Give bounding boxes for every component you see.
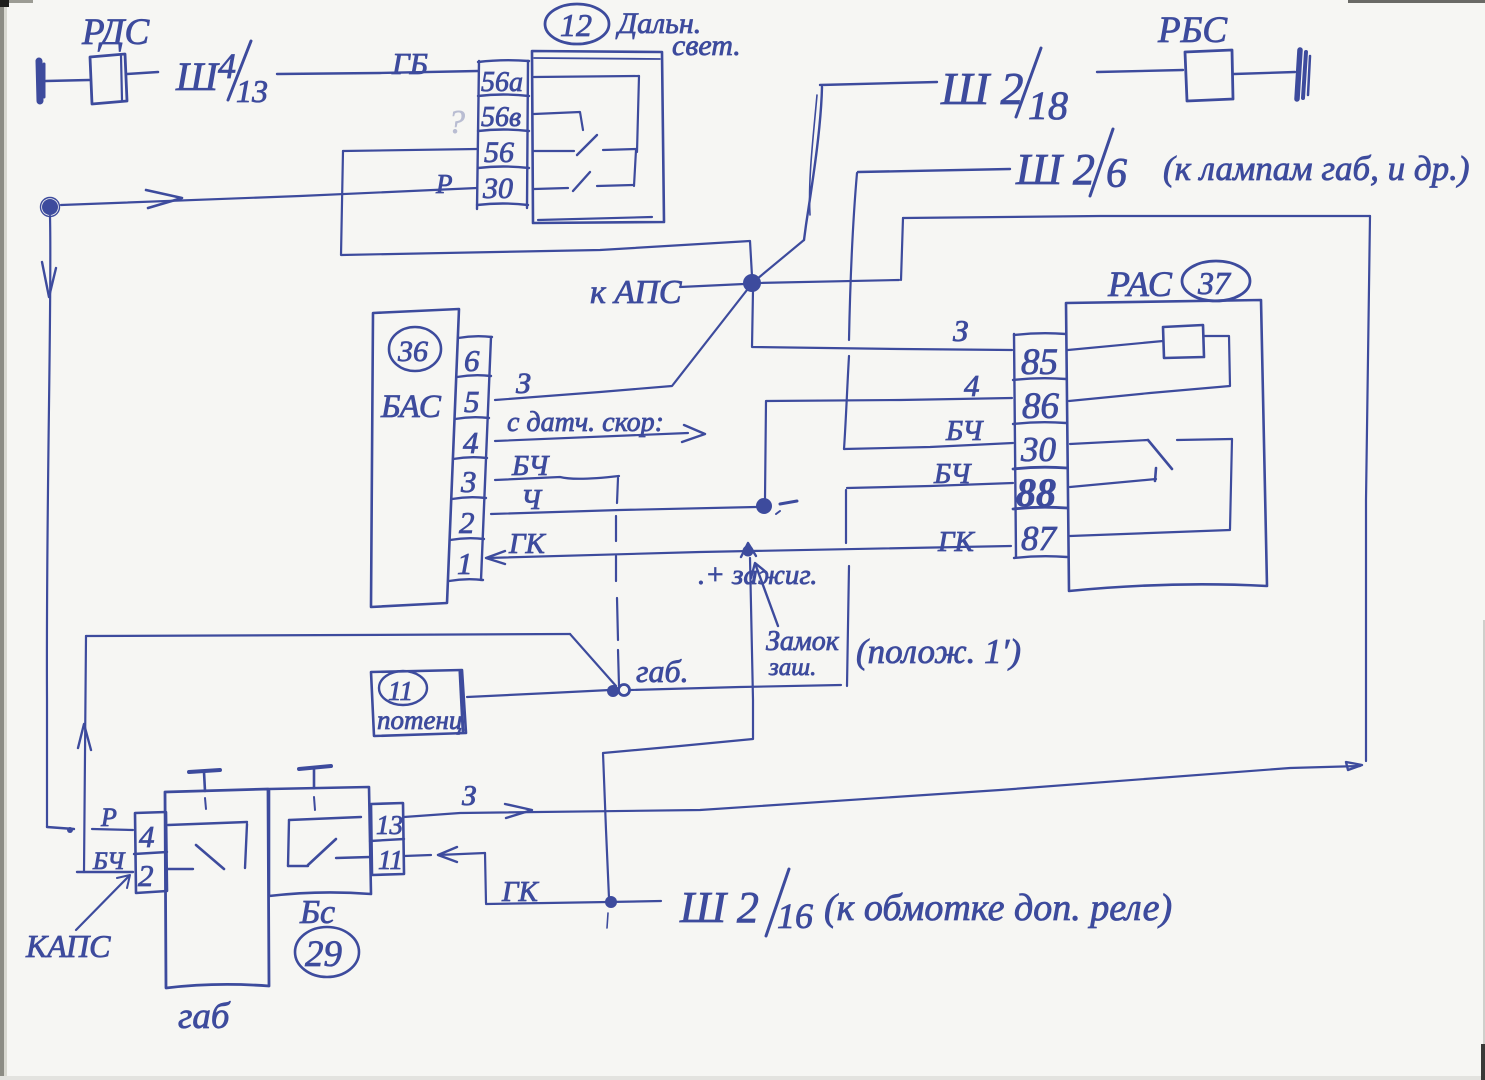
wire БАС pin2 Ч to node — [491, 507, 756, 514]
label Ш4/13 — [175, 41, 268, 109]
svg-text:4: 4 — [463, 425, 479, 460]
wire node A down (left vertical) with down arrow — [42, 216, 56, 827]
svg-text:свет.: свет. — [672, 29, 741, 62]
svg-text:88: 88 — [1016, 470, 1056, 515]
wire Ш2/6 riser down to РАС pin 30 — [844, 173, 857, 449]
wire Ш2/18 riser down to к АПС node — [757, 87, 822, 279]
svg-text:11: 11 — [378, 845, 403, 875]
switch 12 internal: 56 contact and blade — [534, 135, 636, 155]
svg-text:4: 4 — [218, 46, 236, 86]
wire БАС pin4 с датч. скор. with arrow — [495, 425, 705, 442]
svg-text:36: 36 — [397, 335, 428, 368]
wire к АПС label to node — [680, 284, 744, 287]
wire Ш2/18 to РБС fuse — [1097, 70, 1183, 72]
svg-text:4: 4 — [964, 368, 980, 403]
РАС internal: contact 88 — [1070, 479, 1156, 487]
РАС internal: coil box — [1163, 325, 1204, 358]
svg-text:Ш 2: Ш 2 — [940, 63, 1023, 114]
wire РДС to Ш4/13 — [127, 72, 158, 74]
switch 12 internal: 30 contact and blade — [534, 172, 633, 191]
svg-text:РБС: РБС — [1157, 10, 1228, 51]
junction dot on Ш2/16 wire — [605, 896, 617, 928]
svg-text:БЧ: БЧ — [933, 458, 972, 490]
connector 12 pin strip (56a 56в 56 30) — [477, 60, 529, 209]
wire Ш2/6 riser corner to РАС 30 — [844, 443, 1013, 449]
РАС internal: coil circuit 85-86 — [1068, 336, 1230, 401]
label Ш2/6 — [1015, 129, 1127, 197]
wire Ш2/18 horizontal — [820, 82, 937, 85]
label Ш2/16 (к обмотке доп. реле) — [679, 869, 1172, 936]
svg-text:13: 13 — [376, 810, 403, 840]
wire З from pin 13 across page to right edge, with arrow — [404, 762, 1362, 818]
annotation arrow Замок заж. to node — [751, 563, 778, 626]
wire БАС pin3 БЧ — [495, 476, 619, 480]
wire corner down to ГК Ш2/16 line — [485, 853, 486, 903]
РАС internal: contact 30 with blade — [1070, 440, 1172, 481]
wire РБС to terminal — [1234, 72, 1295, 74]
РАС internal: upper contact to 87 — [1070, 439, 1232, 536]
wire Ш2/6 horizontal — [858, 169, 1010, 172]
wire ГБ (Ш4/13 to pin 56a) — [277, 71, 478, 74]
svg-text:56в: 56в — [481, 102, 521, 133]
svg-text:З: З — [953, 313, 968, 348]
wire Р corner into КАПС pin 4 — [47, 827, 133, 833]
node on Ч wire with dash — [756, 498, 797, 514]
svg-text:12: 12 — [560, 7, 592, 43]
junction габ (double circle) — [607, 685, 630, 698]
габ box internal contact — [168, 822, 247, 869]
wire РАС 88 БЧ to left riser — [847, 483, 1013, 488]
annotation line КАПС to pin 2 — [76, 875, 130, 930]
switch 12 internal: 56a common bar — [534, 76, 639, 186]
svg-text:87: 87 — [1021, 519, 1058, 558]
svg-text:Ш: Ш — [175, 54, 220, 99]
svg-text:Ч: Ч — [521, 484, 543, 516]
circled 29 — [295, 927, 359, 977]
svg-text:6: 6 — [1106, 151, 1127, 197]
svg-text:габ.: габ. — [636, 653, 689, 689]
svg-text:5: 5 — [464, 384, 480, 419]
circled 12 — [545, 4, 609, 44]
Бс pin strip (13 11) — [370, 803, 404, 875]
wire потенц to габ junction — [467, 690, 610, 697]
svg-text:56а: 56а — [481, 67, 523, 98]
svg-text:Бс: Бс — [299, 894, 335, 931]
svg-text:с датч. скор:: с датч. скор: — [507, 407, 664, 438]
svg-text:Замок: Замок — [766, 626, 840, 657]
circled 11 (потенц) — [379, 671, 427, 706]
node +зажиг on ГК wire — [741, 543, 756, 557]
label Ш2/18 — [940, 48, 1068, 128]
big box right edge down — [1366, 216, 1370, 761]
relay Бс box — [269, 787, 371, 896]
svg-text:16: 16 — [777, 896, 813, 936]
node A (top-left junction) — [41, 198, 60, 217]
svg-text:Ш 2: Ш 2 — [1015, 145, 1095, 194]
circled 37 — [1182, 261, 1250, 301]
Бс box internal contact — [288, 817, 370, 866]
КАПС pin strip (4 2) — [134, 812, 167, 893]
svg-text:ГК: ГК — [501, 876, 539, 908]
svg-text:заш.: заш. — [768, 654, 816, 681]
wire БЧ into КАПС pin 2 — [77, 871, 133, 873]
svg-text:РДС: РДС — [81, 12, 150, 53]
antenna symbol on Бс box — [299, 766, 331, 810]
wire node up and right to РАС pin 86 — [765, 398, 1012, 498]
svg-text:11: 11 — [388, 676, 413, 706]
svg-text:?: ? — [448, 104, 465, 141]
wire БАС pin1 ГК to РАС pin 87 (through +зажиг node) — [486, 546, 1011, 564]
svg-text:потенц: потенц — [377, 705, 462, 735]
wire pin 56 to left riser — [343, 149, 477, 151]
svg-text:2: 2 — [459, 505, 475, 540]
wire БАС pin5 З to к АПС node — [495, 290, 747, 400]
wire +зажиг node down, left, down to Ш2/16 junction — [603, 558, 753, 898]
dashed riser pin3 БЧ down to габ junction — [616, 478, 619, 686]
БАС pin strip (6..1) — [449, 336, 492, 581]
svg-text:85: 85 — [1021, 342, 1058, 383]
fuse РДС (top-left) terminal bar — [39, 61, 44, 101]
wire к АПС node down and right to РАС 85 — [752, 290, 1012, 350]
antenna symbol on габ box — [189, 770, 220, 809]
fuse РБС box — [1185, 50, 1233, 101]
svg-text:30: 30 — [482, 172, 513, 205]
switch 12 internal bottom link — [538, 217, 652, 220]
РАС pin strip (85 86 30 88 87) — [1013, 333, 1067, 558]
svg-text:18: 18 — [1028, 83, 1068, 128]
svg-text:Р: Р — [100, 803, 117, 832]
svg-text:БЧ: БЧ — [92, 848, 126, 875]
svg-text:1: 1 — [457, 546, 473, 581]
svg-text:29: 29 — [305, 934, 342, 975]
svg-text:БЧ: БЧ — [511, 450, 550, 482]
svg-text:(полож. 1′): (полож. 1′) — [856, 632, 1021, 671]
svg-text:56: 56 — [484, 136, 514, 169]
svg-text:37: 37 — [1197, 265, 1232, 301]
label Замок заж. — [766, 626, 840, 681]
svg-text:габ: габ — [178, 996, 231, 1037]
svg-text:З: З — [462, 780, 476, 812]
svg-text:(к обмотке доп. реле): (к обмотке доп. реле) — [824, 887, 1172, 929]
relay габ box — [165, 789, 269, 988]
svg-text:БЧ: БЧ — [945, 415, 984, 447]
svg-text:РАС: РАС — [1107, 264, 1173, 304]
wire габ junction to РАС88 riser — [630, 685, 841, 690]
wire into pin 11 with left arrow — [404, 847, 485, 862]
relay РАС (37) box — [1066, 300, 1267, 591]
node к АПС (junction) — [743, 274, 761, 292]
svg-text:30: 30 — [1020, 430, 1057, 469]
svg-text:к АПС: к АПС — [590, 274, 682, 311]
svg-text:ГБ: ГБ — [391, 46, 428, 81]
svg-text:З: З — [516, 367, 531, 400]
wire left loop top (to габ junction) — [86, 634, 616, 686]
потенциометр 11 box — [371, 670, 466, 736]
block БАС (36) main box — [371, 309, 459, 607]
svg-text:6: 6 — [464, 343, 480, 378]
svg-text:(к лампам габ, и др.): (к лампам габ, и др.) — [1163, 149, 1470, 188]
svg-text:Р: Р — [435, 169, 453, 199]
label Дальн. свет. — [615, 7, 741, 62]
wire ГК to Ш2/16 — [486, 901, 661, 904]
svg-text:13: 13 — [236, 73, 268, 109]
big box top edge (к АПС to right edge) — [757, 216, 1370, 283]
circled 36 — [389, 327, 441, 371]
svg-text:БАС: БАС — [380, 389, 442, 425]
wire node A to pin 30 (P wire) with right arrow — [61, 188, 477, 208]
svg-text:Ш 2: Ш 2 — [679, 883, 759, 932]
switch У12 (Дальн. свет) box — [532, 51, 664, 223]
switch 12 internal: 56в stub — [534, 112, 583, 130]
svg-text:2: 2 — [138, 858, 154, 893]
svg-text:ГК: ГК — [937, 526, 975, 558]
svg-text:86: 86 — [1022, 386, 1060, 427]
wire terminal to РДС fuse — [46, 80, 89, 81]
terminal bar right (scribbled) — [1297, 50, 1310, 99]
riser РАС 88 wire down to габ line — [846, 490, 849, 686]
fuse РДС box — [90, 54, 127, 104]
wire riser from pin56 down to к АПС node — [341, 151, 752, 276]
svg-text:4: 4 — [139, 819, 155, 854]
svg-text:КАПС: КАПС — [25, 928, 111, 964]
svg-text:ГК: ГК — [508, 528, 546, 560]
wire left loop vertical with up arrow — [78, 636, 91, 872]
svg-text:3: 3 — [460, 464, 477, 499]
